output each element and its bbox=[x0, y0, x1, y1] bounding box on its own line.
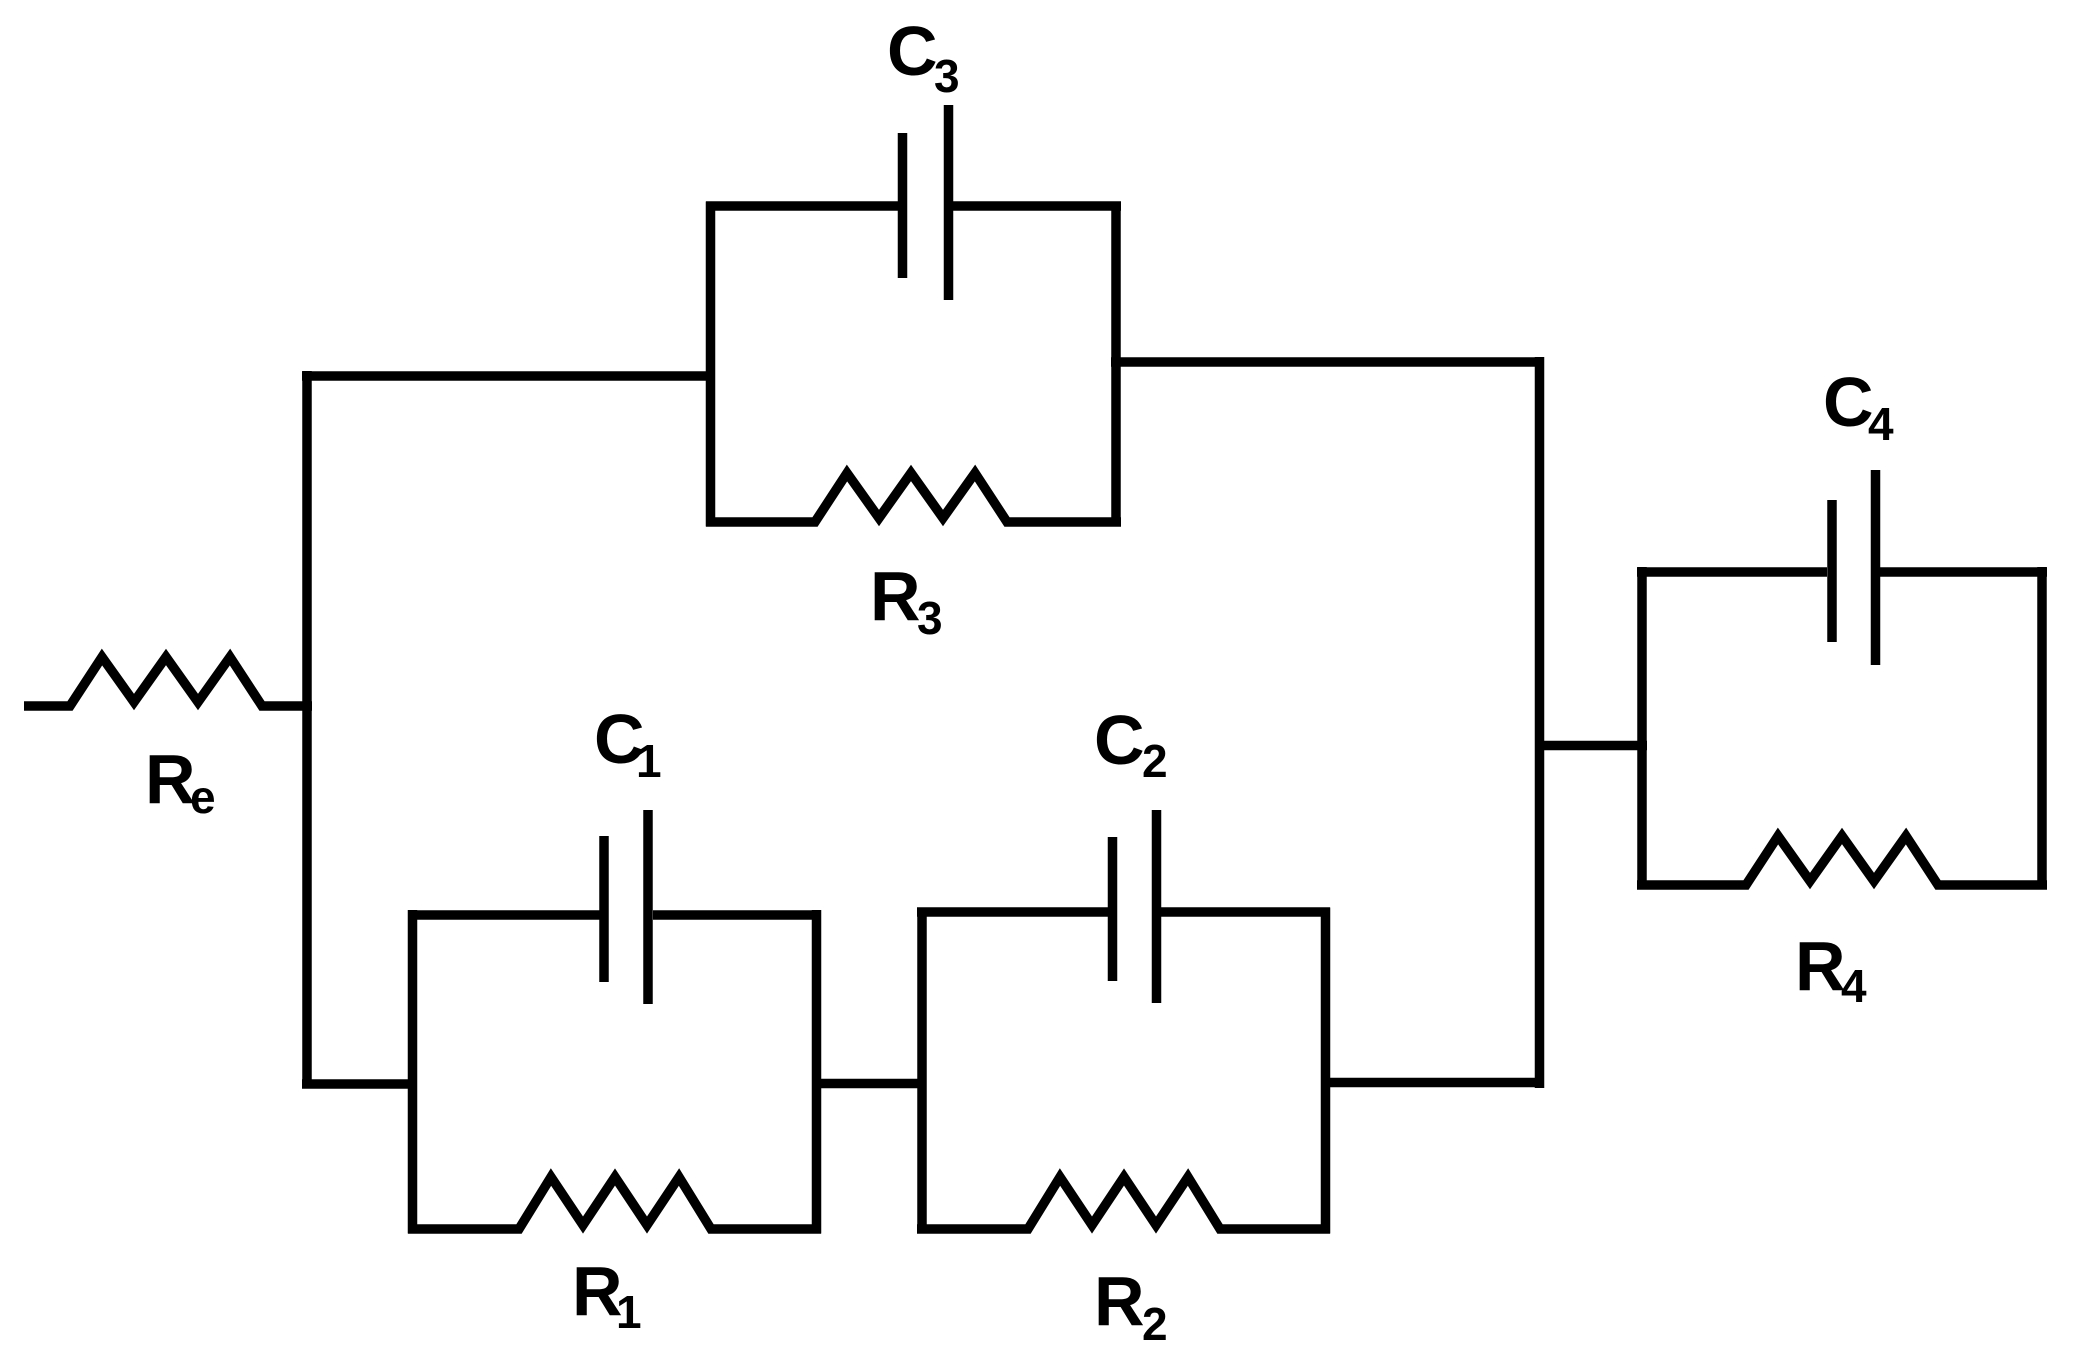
wire bottom bus right bbox=[1321, 1078, 1544, 1088]
label Re bbox=[145, 740, 216, 823]
wire C1 top-right lead bbox=[653, 910, 821, 920]
wire C4 top-right lead bbox=[1880, 567, 2047, 577]
wire C3 top-right lead bbox=[953, 201, 1121, 211]
RC module 1 : box right side wire bbox=[812, 910, 822, 1234]
wire C2 top-left lead bbox=[917, 907, 1108, 917]
capacitor C3 left plate bbox=[898, 133, 908, 278]
label R2 bbox=[1094, 1262, 1168, 1350]
label C3 bbox=[887, 12, 960, 102]
wire C1 top-left lead bbox=[408, 910, 600, 920]
wire bottom bus left bbox=[302, 1079, 417, 1089]
svg-text:3: 3 bbox=[917, 592, 943, 644]
node left junction vertical wire bbox=[302, 371, 312, 1088]
capacitor C3 right plate bbox=[944, 105, 954, 300]
wire C4 top-left lead bbox=[1637, 567, 1827, 577]
capacitor C1 right plate bbox=[643, 810, 653, 1004]
svg-text:R: R bbox=[1795, 927, 1846, 1005]
RC module 3 : box right side wire bbox=[1111, 202, 1121, 527]
label R4 bbox=[1795, 927, 1867, 1012]
capacitor C2 left plate bbox=[1108, 837, 1118, 981]
svg-text:C: C bbox=[887, 12, 938, 90]
svg-text:1: 1 bbox=[636, 735, 662, 787]
label R1 bbox=[572, 1252, 642, 1338]
resistor R1 with bottom leads bbox=[408, 1177, 821, 1229]
resistor Re bbox=[24, 657, 312, 706]
svg-text:2: 2 bbox=[1142, 1298, 1168, 1350]
svg-text:R: R bbox=[572, 1252, 623, 1330]
svg-text:C: C bbox=[1823, 363, 1874, 441]
wire top bus bbox=[302, 371, 715, 381]
RC module 1 : box left side wire bbox=[408, 910, 418, 1234]
wire C3 box to right bus bbox=[1111, 357, 1544, 367]
svg-text:e: e bbox=[190, 771, 216, 823]
wire C2 top-right lead bbox=[1161, 907, 1330, 917]
svg-text:R: R bbox=[1094, 1262, 1145, 1340]
wire C3 top-left lead bbox=[706, 201, 898, 211]
svg-text:R: R bbox=[145, 740, 196, 818]
label C2 bbox=[1094, 701, 1168, 787]
svg-text:C: C bbox=[1094, 701, 1145, 779]
svg-text:1: 1 bbox=[616, 1286, 642, 1338]
svg-text:3: 3 bbox=[934, 50, 960, 102]
capacitor C2 right plate bbox=[1152, 810, 1162, 1003]
resistor R4 with bottom leads bbox=[1637, 836, 2047, 885]
label R3 bbox=[870, 557, 943, 644]
right bus vertical wire bbox=[1535, 357, 1545, 1088]
resistor R2 with bottom leads bbox=[917, 1177, 1330, 1229]
RC module 3 : box left side wire bbox=[706, 202, 716, 527]
svg-text:4: 4 bbox=[1841, 960, 1867, 1012]
capacitor C1 left plate bbox=[599, 836, 609, 982]
wire node to R4 box bbox=[1535, 741, 1647, 751]
resistor R3 with bottom leads bbox=[706, 473, 1121, 522]
RC module 4 : box right side wire bbox=[2037, 567, 2047, 890]
capacitor C4 right plate bbox=[1871, 470, 1881, 665]
svg-text:4: 4 bbox=[1868, 398, 1894, 450]
capacitor C4 left plate bbox=[1827, 500, 1837, 642]
wire module 1 to module 2 bbox=[812, 1079, 926, 1089]
RC module 2 : box left side wire bbox=[917, 910, 927, 1234]
RC module 4 : box left side wire bbox=[1637, 567, 1647, 890]
RC module 2 : box right side wire bbox=[1321, 908, 1331, 1234]
label C4 bbox=[1823, 363, 1894, 450]
label C1 bbox=[594, 700, 662, 787]
svg-text:R: R bbox=[870, 557, 921, 635]
svg-text:2: 2 bbox=[1142, 735, 1168, 787]
